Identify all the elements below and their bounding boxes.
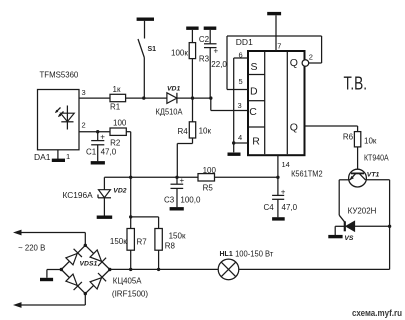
svg-text:C2: C2 [199,35,210,44]
lamp HL1 100-150W [218,249,273,280]
svg-text:VD2: VD2 [113,188,126,195]
power bar above pin 7 [267,12,281,15]
power bar above C2 [204,27,217,30]
svg-text:схема.myf.ru: схема.myf.ru [352,308,402,319]
cell label D [250,86,258,98]
junction pin14/C4 node [276,176,279,179]
svg-text:(IRF1500): (IRF1500) [112,289,149,298]
svg-text:100-150 Вт: 100-150 Вт [235,249,273,259]
DA1 pin 1 to ground [58,150,70,161]
svg-text:C3: C3 [164,196,175,205]
pin number 7 [277,41,281,50]
wire Q output to R6 [305,126,358,132]
junction bridge top corner [84,244,87,247]
bridge left corner to ground [47,270,61,278]
pin number 5 [239,77,243,86]
capacitor C2 22.0 [199,30,228,98]
pin number 3 [238,101,242,110]
wire pin 7 [275,15,277,51]
AC line upper with arrow [13,230,85,253]
resistor R7 150k [110,229,147,270]
svg-text:VDS1: VDS1 [80,261,98,268]
svg-text:150к: 150к [110,237,127,246]
svg-text:1к: 1к [113,85,121,94]
ground under S R pins [228,152,241,155]
IR receiver DA1 TFMS5360 [34,70,79,163]
junction R2/R7 node [129,176,132,179]
svg-text:47,0: 47,0 [101,147,117,156]
bridge diode bottom-right [90,273,106,289]
photodiode inside DA1 [55,106,74,130]
ground bar AC neutral [40,278,53,281]
svg-text:R: R [252,136,260,148]
svg-text:S: S [251,61,258,73]
svg-text:1: 1 [66,152,70,161]
inversion bubble pin 2 [302,60,309,67]
DA1 pin 3 label [82,88,86,97]
svg-text:14: 14 [282,160,290,169]
op chip DD1 К561ТМ2 outline [236,37,323,179]
junction R7 top node [129,215,132,218]
pin number 6 [239,51,243,60]
ground bar VS cathode [328,235,342,238]
svg-text:S1: S1 [148,46,157,53]
cell label S [251,61,258,73]
bridge diode top-right [90,250,106,266]
svg-text:VT1: VT1 [367,171,380,178]
label T.V. [344,73,368,94]
svg-text:C: C [249,106,257,118]
bridge diode bottom-left [66,274,82,290]
junction R3 node [191,96,194,99]
ground under C4 [272,217,285,220]
ground under VD2 [97,215,113,218]
svg-text:DD1: DD1 [236,37,253,47]
S and R pins to ground [234,58,248,152]
svg-text:R7: R7 [137,238,148,247]
capacitor C4 47,0 [264,177,298,217]
wire emitter to gate [339,180,350,223]
resistor R8 150k [155,229,186,270]
transistor VT1 КТ940А [349,154,390,188]
zener VD2 КС196А [63,177,127,215]
svg-text:C1: C1 [86,147,97,156]
svg-text:+: + [281,187,286,196]
junction bridge left corner [60,268,63,271]
junction bridge right corner [108,268,111,271]
junction R8 bottom [157,268,160,271]
resistor R3 100k [171,30,210,98]
resistor R5 100 [198,166,216,192]
wire lamp to right riser [239,180,390,270]
power bar above R3 [186,27,198,30]
switch S1 [138,21,156,98]
junction pin4 node [232,141,235,144]
svg-text:2: 2 [82,121,86,130]
wire R1 to VD1 [126,97,167,99]
svg-text:47,0: 47,0 [282,203,298,212]
DA1 pin 2 label [82,121,86,130]
DC+ wire to lamp [110,268,218,270]
ground under C3 [170,207,184,210]
svg-text:К561ТМ2: К561ТМ2 [291,170,323,179]
svg-text:~ 220 В: ~ 220 В [18,244,45,253]
supply rail wire right part [215,176,278,178]
capacitor C3 100,0 [164,176,201,207]
pin number 14 [282,160,290,169]
svg-text:22,0: 22,0 [211,60,227,69]
ground under C1 [91,161,105,164]
svg-text:100: 100 [113,119,127,128]
svg-text:КС196А: КС196А [63,191,94,200]
svg-text:DA1: DA1 [34,152,51,162]
feedback loop Q-bar to D [227,36,322,90]
resistor R4 10k [177,98,211,177]
wire collector to right riser [365,179,389,181]
R7 R8 top connector [131,177,159,228]
svg-text:+: + [214,47,219,56]
pin number 4 [238,133,242,142]
svg-text:R5: R5 [203,183,214,192]
svg-text:100к: 100к [171,49,188,58]
svg-text:+: + [180,176,185,185]
svg-text:C4: C4 [264,203,275,212]
junction R7 bottom [129,268,132,271]
cell label Q bottom [290,121,298,133]
wire VD1 to C2 junction [177,97,211,99]
svg-text:+: + [100,133,105,142]
svg-text:КТ940А: КТ940А [364,154,389,163]
svg-text:Т.В.: Т.В. [344,73,368,94]
diode VD1 КД510А [156,86,184,117]
junction S1/R1 wire [142,96,145,99]
svg-text:R6: R6 [343,132,354,141]
cell label C [249,106,257,118]
svg-text:R4: R4 [178,127,189,136]
svg-text:КЦ405А: КЦ405А [113,276,142,285]
power bar above S1 [137,18,154,21]
svg-text:150к: 150к [169,231,186,240]
junction bridge bottom corner [84,292,87,295]
svg-text:R3: R3 [199,55,210,64]
svg-text:R8: R8 [165,241,176,250]
AC line lower with arrow [13,294,85,308]
svg-text:TFMS5360: TFMS5360 [40,70,79,80]
wire pin 14 down [277,155,279,177]
svg-text:3: 3 [82,88,86,97]
resistor R2 100 [110,119,127,148]
svg-text:HL1: HL1 [220,251,233,258]
svg-text:КУ202Н: КУ202Н [348,207,377,216]
svg-text:VD1: VD1 [167,86,180,93]
thyristor VS КУ202Н [335,207,389,243]
watermark [352,308,402,319]
svg-text:R1: R1 [110,103,121,112]
wire R2 down to supply rail [126,132,130,178]
resistor R6 10k [343,132,377,170]
svg-text:2: 2 [309,52,313,61]
wire C pin jog to DD1 [211,98,248,110]
junction C3 node [175,176,178,179]
svg-text:КД510А: КД510А [156,108,184,117]
svg-text:D: D [250,86,258,98]
svg-text:10к: 10к [364,136,377,145]
pin number 2 [309,52,313,61]
svg-text:10к: 10к [199,127,212,136]
capacitor C1 47,0 [86,132,117,162]
bridge rectifier VDS1 КЦ405А [61,245,148,298]
resistor R1 1k [110,85,126,112]
svg-text:VS: VS [344,235,354,242]
junction C1 node [96,130,99,133]
svg-text:3: 3 [238,101,242,110]
svg-text:Q: Q [290,121,298,133]
supply rail wire left part [104,176,198,178]
svg-text:4: 4 [238,133,242,142]
svg-text:7: 7 [277,41,281,50]
ground under DA1 [52,159,65,162]
svg-text:100: 100 [203,166,217,175]
cell label Q top [290,57,298,69]
cell label R [252,136,260,148]
junction VS anode riser [388,225,391,228]
svg-text:100,0: 100,0 [180,196,201,205]
wire DA1 pin2 to R2 [79,131,110,133]
wire pin3 to R1 [79,97,110,99]
svg-text:Q: Q [290,57,298,69]
svg-text:R2: R2 [110,139,121,148]
svg-text:5: 5 [239,77,243,86]
junction C2 node [209,96,212,99]
bridge diode top-left [66,249,82,265]
